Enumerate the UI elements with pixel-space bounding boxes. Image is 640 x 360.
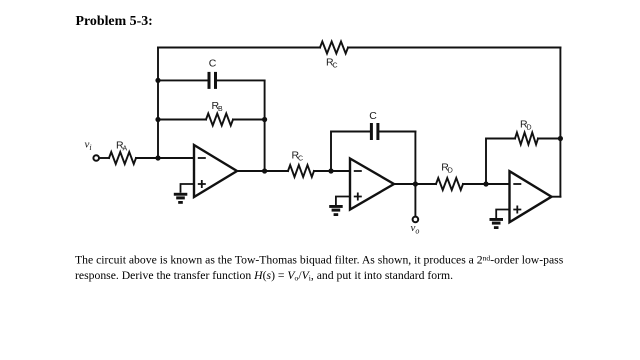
op1 plus pin — [198, 180, 206, 188]
op-amp U3 — [510, 171, 552, 222]
wire op1 output — [237, 170, 288, 172]
op3 minus pin — [513, 183, 521, 185]
wire RB left lead — [158, 119, 206, 121]
op-amp U2 — [350, 159, 394, 210]
svg-text:vi: vi — [85, 139, 92, 153]
wire op2 output — [394, 183, 436, 185]
svg-text:C: C — [333, 63, 338, 70]
svg-text:C: C — [298, 155, 303, 162]
ground symbol U1 — [174, 193, 188, 196]
resistor RD (feedback of U3) — [515, 133, 538, 145]
wire ground U2 — [336, 197, 350, 206]
wire right rail down — [559, 48, 561, 197]
svg-text:C: C — [369, 110, 377, 122]
ground symbol U3 — [490, 218, 504, 221]
wire top feedback right — [348, 47, 560, 49]
wire RD to op-amp U3 — [463, 183, 510, 185]
junction node left rail / C1 — [155, 78, 160, 83]
wire top feedback left — [158, 47, 320, 49]
wire cap C1 left lead — [158, 79, 208, 81]
svg-text:Problem 5-3:: Problem 5-3: — [76, 14, 153, 29]
op2 minus pin — [354, 170, 362, 172]
wire RD feedback left rail — [486, 139, 515, 185]
svg-text:vo: vo — [411, 222, 420, 236]
resistor RD (between U2 and U3) — [436, 178, 463, 190]
wire RA to op-amp U1 minus input — [136, 157, 194, 159]
junction node left rail / RB — [155, 117, 160, 122]
resistor RC (between U1 and U2) — [288, 165, 314, 177]
wire cap C2 left rail — [331, 132, 370, 172]
junction node op2 output / vo — [413, 181, 418, 186]
wire RD feedback right — [538, 138, 560, 140]
junction node RD feedback / op3 input — [483, 181, 488, 186]
junction node left rail / input — [155, 155, 160, 160]
svg-text:response. Derive the transfer: response. Derive the transfer function H… — [75, 269, 453, 283]
wire op3 output — [552, 196, 561, 198]
svg-text:D: D — [527, 125, 532, 132]
wire cap C1 right lead — [217, 79, 265, 81]
wire vo drop — [414, 184, 416, 216]
svg-text:B: B — [218, 106, 223, 113]
wire RC to op-amp U2 — [314, 170, 350, 172]
junction node right rail1 / RB — [262, 117, 267, 122]
junction node right rail1 / op1 output — [262, 168, 267, 173]
wire rail right of stage1 — [264, 80, 266, 171]
capacitor C1 plates — [208, 72, 211, 89]
capacitor C2 plates — [370, 123, 373, 140]
op2 plus pin — [354, 193, 362, 201]
input terminal vi — [93, 155, 99, 161]
wire ground U1 — [181, 184, 195, 193]
svg-text:The circuit above is known as: The circuit above is known as the Tow-Th… — [75, 254, 564, 267]
op1 minus pin — [198, 157, 206, 159]
wire left rail (node A) — [157, 48, 159, 159]
wire cap C2 right lead — [379, 131, 415, 133]
junction node cap2 rail / op2 input — [328, 168, 333, 173]
resistor RC (top feedback) — [320, 42, 348, 54]
wire rail right of stage2 — [414, 132, 416, 185]
op-amp U1 — [194, 145, 237, 197]
output terminal vo — [413, 217, 419, 223]
ground symbol U2 — [329, 205, 343, 208]
svg-text:D: D — [448, 168, 453, 175]
resistor RA — [109, 152, 136, 164]
resistor RB — [206, 114, 233, 126]
op3 plus pin — [513, 206, 521, 214]
wire RB right lead — [233, 119, 265, 121]
svg-text:A: A — [123, 146, 128, 153]
wire vi to RA — [100, 157, 110, 159]
svg-text:C: C — [209, 57, 217, 69]
junction node RD feedback / right rail — [558, 136, 563, 141]
wire ground U3 — [496, 210, 509, 219]
